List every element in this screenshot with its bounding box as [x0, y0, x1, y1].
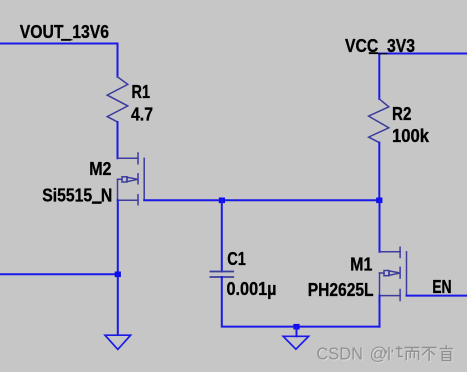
resistor R2 [369, 99, 389, 143]
svg-text:M1: M1 [350, 254, 372, 274]
svg-text:EN: EN [432, 277, 451, 297]
junction C1 top [219, 198, 225, 204]
忙 [386, 346, 403, 361]
wire node to M1 drain [379, 200, 381, 252]
junction bottom ground tap [293, 324, 299, 330]
bulk-source tie [117, 179, 119, 200]
drain leg [380, 251, 401, 253]
忙 shadow [387, 347, 404, 362]
source leg [380, 295, 401, 297]
middle bar [137, 174, 139, 184]
wire left rail to node [0, 273, 118, 275]
drain leg [118, 157, 139, 159]
而 shadow [406, 349, 421, 362]
不 [422, 348, 437, 362]
source bar [399, 290, 401, 301]
ground stub [296, 327, 298, 337]
drain bar [137, 153, 139, 164]
capacitor C1 [210, 272, 233, 278]
transistor M1 (PH2625L) [380, 247, 407, 300]
drain bar [399, 247, 401, 257]
svg-text:R1: R1 [132, 82, 151, 102]
transistor M2 (Si5515_N) [118, 153, 145, 205]
wire M1 source to bottom rail [379, 296, 381, 327]
junction M2 source/left rail [115, 272, 121, 278]
svg-text:M2: M2 [89, 159, 111, 179]
wire VCC rail [379, 54, 467, 100]
不 shadow [423, 349, 438, 363]
svg-text:CSDN: CSDN [316, 343, 363, 363]
middle bar [399, 267, 401, 278]
wire M2 source down to ground [117, 200, 119, 334]
svg-text:PH2625L: PH2625L [308, 280, 374, 300]
svg-text:100k: 100k [392, 126, 430, 146]
svg-text:VCC_3V3: VCC_3V3 [345, 36, 415, 56]
svg-text:VOUT_13V6: VOUT_13V6 [20, 22, 109, 42]
盲 shadow [441, 346, 454, 361]
ground bottom middle [283, 336, 308, 349]
盲 [440, 345, 453, 360]
svg-text:R2: R2 [392, 104, 411, 124]
wire R2 to node [378, 143, 380, 201]
wire node to C1 [221, 200, 223, 271]
junction R2/M1 node [376, 198, 382, 204]
wire R1 to M2 drain [117, 122, 119, 158]
source bar [137, 195, 139, 205]
ground left [105, 335, 131, 349]
而 [405, 348, 420, 361]
svg-text:C1: C1 [227, 249, 246, 269]
bulk leg with arrow [380, 272, 385, 274]
channel line [406, 252, 408, 296]
source leg [118, 199, 139, 201]
channel line [143, 158, 145, 200]
bulk leg with arrow [118, 178, 123, 180]
wire M1 gate to EN [407, 295, 467, 297]
resistor R1 [107, 77, 128, 122]
watermark CJK glyphs approximated [386, 345, 454, 362]
bulk-source tie [379, 273, 381, 296]
wire VOUT rail top-left [0, 44, 118, 77]
wire M2 gate to middle node [144, 199, 379, 201]
wire C1 to bottom rail [222, 277, 380, 327]
svg-text:0.001µ: 0.001µ [227, 279, 277, 299]
svg-text:4.7: 4.7 [131, 104, 153, 124]
svg-text:@: @ [370, 343, 388, 363]
watermark CSDN [316, 343, 388, 364]
